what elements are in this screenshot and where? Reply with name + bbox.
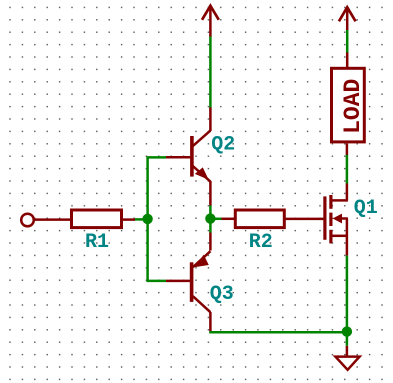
node C junction — [342, 326, 352, 336]
ground — [335, 346, 359, 370]
node A junction — [142, 214, 152, 224]
wire node C to ground — [346, 335, 349, 346]
node B junction — [205, 213, 215, 223]
svg-text:LOAD: LOAD — [340, 79, 366, 134]
transistor Q1 — [325, 184, 348, 256]
svg-text:R1: R1 — [85, 231, 109, 254]
wire drain to LOAD — [346, 154, 349, 183]
wire VCC rail left — [209, 36, 212, 108]
wire node B to R2 — [210, 218, 221, 221]
transistor Q2 — [166, 107, 210, 206]
wire base bus vertical — [146, 157, 149, 281]
svg-text:Q1: Q1 — [354, 197, 378, 220]
input terminal pin — [21, 214, 70, 227]
wire Q3 emitter to node B — [209, 223, 212, 233]
wire source to node C — [346, 256, 349, 327]
wire R1 to node A — [135, 218, 148, 221]
svg-text:R2: R2 — [249, 231, 273, 254]
svg-text:Q3: Q3 — [210, 283, 234, 306]
svg-text:Q2: Q2 — [211, 134, 235, 157]
power VCC arrow left — [202, 6, 219, 37]
resistor R2 — [222, 210, 324, 228]
resistor LOAD — [332, 52, 365, 155]
wire to Q2 base — [146, 156, 166, 159]
wire Q2 emitter to node B — [209, 206, 212, 215]
transistor Q3 — [166, 233, 210, 332]
power VCC arrow right — [339, 7, 356, 30]
wire bottom rail to node C — [209, 331, 347, 334]
wire to Q3 base — [146, 280, 166, 283]
resistor R1 — [72, 210, 136, 228]
wire VCC rail right — [346, 30, 349, 53]
